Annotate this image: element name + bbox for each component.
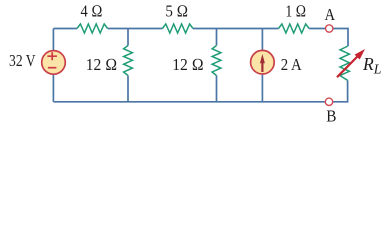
resistor RL (vertical zigzag of the variable load) [340,46,349,80]
resistor 12 ohm, first branch (vertical zigzag) [124,46,133,76]
wire: 2A current-source branch (vertical, source circle overlays it) [261,29,263,102]
svg-text:5 Ω: 5 Ω [165,1,188,20]
wire: left vertical branch (through 32V source) [52,29,54,102]
svg-text:B: B [326,107,336,126]
current source 2A (circle) [251,50,275,74]
wire: first 12-ohm branch, upper stub [127,29,129,46]
minus sign inside voltage source [48,67,57,69]
wire: top rail between 5-ohm and 1-ohm (nodes of second 12-ohm and 2A branches) [193,28,279,30]
resistor 12 ohm, second branch (vertical zigzag) [212,46,221,76]
wire: first 12-ohm branch, lower stub [127,76,129,102]
plus sign inside voltage source [47,52,57,60]
svg-text:4 Ω: 4 Ω [81,1,103,20]
svg-text:32 V: 32 V [9,51,36,70]
resistor 5 ohm (horizontal zigzag) [162,24,193,33]
wire: terminal A to top-right corner, down to RL [333,29,348,47]
terminal A (open node circle) [326,25,333,32]
wire: terminal B to bottom-right corner, up to RL [333,80,348,102]
wire: bottom rail, corner to terminal B [53,101,325,103]
svg-text:2 A: 2 A [281,55,303,74]
svg-text:A: A [325,5,336,24]
wire: top rail, corner to 4-ohm resistor [53,28,77,30]
svg-text:12 Ω: 12 Ω [172,55,204,74]
arrow inside current source (pointing up) [261,61,263,72]
svg-text:12 Ω: 12 Ω [86,55,118,74]
arrow of variable resistor RL (diagonal, pointing upper-right) [337,55,359,77]
svg-text:1 Ω: 1 Ω [285,1,306,20]
wire: top rail between 4-ohm and 5-ohm (node of first 12-ohm branch) [108,28,163,30]
resistor 1 ohm (horizontal zigzag) [279,24,310,33]
wire: second 12-ohm branch, upper stub [216,29,218,46]
wire: second 12-ohm branch, lower stub [216,76,218,102]
resistor 4 ohm (horizontal zigzag) [77,24,108,33]
wire: 1-ohm to terminal A [309,28,325,30]
voltage source 32V (circle) [42,51,66,75]
terminal B (open node circle) [325,98,332,105]
